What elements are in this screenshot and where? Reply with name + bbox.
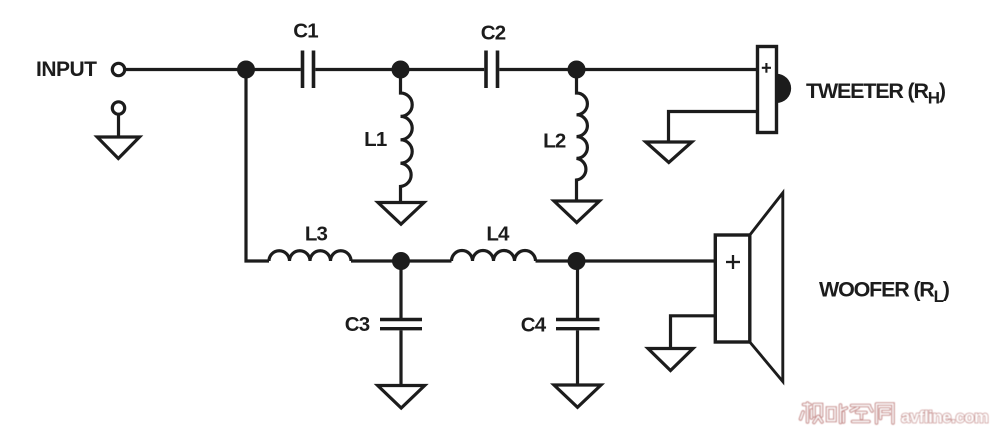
wire J5 to C4 (576, 261, 579, 318)
inductor L2 (577, 70, 588, 202)
wire J1 to C1 (246, 68, 301, 71)
wire C3 to ground (399, 330, 402, 385)
wire C1 to node J2 (315, 68, 400, 71)
ground (L1) (378, 203, 424, 225)
svg-text:avfline.com: avfline.com (901, 409, 988, 427)
svg-text:L4: L4 (486, 222, 510, 245)
tweeter dome (777, 74, 792, 103)
svg-text:WOOFER (RL): WOOFER (RL) (819, 278, 950, 307)
woofer driver body U2 (715, 235, 750, 342)
wire C4 to ground (576, 330, 579, 385)
ground (input) (97, 137, 139, 159)
svg-text:INPUT: INPUT (36, 58, 97, 81)
svg-text:L1: L1 (364, 128, 387, 151)
wire L3 to node J4 (351, 259, 401, 262)
woofer cone (750, 193, 783, 382)
wire C2 to node J3 (499, 68, 576, 71)
node J1 (237, 61, 255, 79)
inductor L3 (269, 251, 351, 261)
ground (woofer) (648, 349, 693, 371)
wire J4 to C3 (399, 261, 402, 318)
svg-text:TWEETER (RH): TWEETER (RH) (806, 79, 946, 108)
capacitor C3 (380, 320, 422, 329)
watermark 视听空间 avfline.com (801, 403, 989, 427)
svg-text:C2: C2 (481, 22, 506, 45)
wire J5 to woofer (577, 259, 716, 262)
woofer plus sign (726, 255, 740, 269)
svg-text:C1: C1 (293, 20, 318, 43)
wire woofer to ground (671, 316, 716, 349)
svg-text:C4: C4 (521, 314, 547, 337)
wire L4 to node J5 (536, 259, 577, 262)
tweeter plus sign (762, 63, 771, 73)
ground (C4) (554, 385, 601, 407)
ground (tweeter) (646, 142, 692, 163)
svg-text:L2: L2 (543, 129, 566, 152)
inductor L4 (452, 251, 536, 262)
node J3 (568, 61, 586, 79)
capacitor C4 (556, 320, 600, 329)
node J4 (392, 252, 410, 270)
tweeter driver body U1 (758, 47, 777, 133)
ground (L2) (554, 201, 600, 223)
wire tweeter to ground (669, 112, 758, 143)
inductor L1 (401, 70, 413, 203)
wire J2 to C2 (401, 68, 485, 71)
ground (C3) (378, 386, 425, 409)
input ground terminal circle (112, 102, 124, 114)
capacitor C1 (303, 51, 314, 89)
svg-text:L3: L3 (305, 222, 328, 245)
input terminal (open circle) (112, 63, 124, 75)
wire input terminal to node J1 (126, 68, 246, 71)
wire J3 to tweeter (577, 68, 758, 71)
wire J4 to L4 (401, 259, 452, 262)
wire ground circle to ground (117, 115, 120, 138)
capacitor C2 (486, 51, 498, 89)
wire J1 down to low-pass branch (246, 70, 269, 262)
svg-text:C3: C3 (345, 313, 370, 336)
node J5 (568, 252, 586, 270)
node J2 (392, 61, 410, 79)
